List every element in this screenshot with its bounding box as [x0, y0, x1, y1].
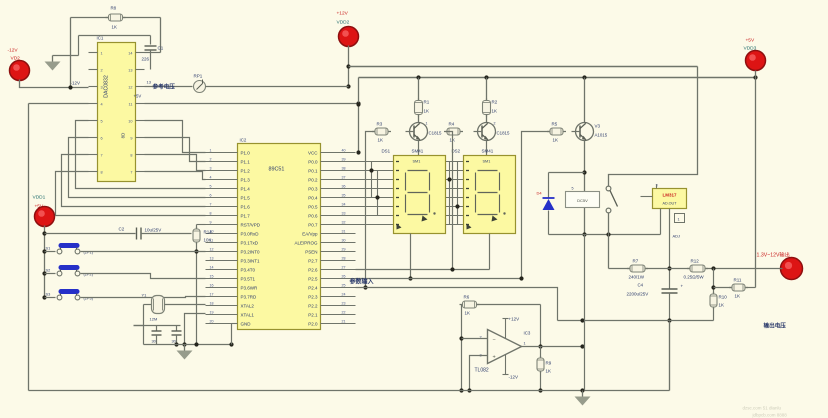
svg-text:P0.4: P0.4 [308, 195, 318, 200]
wire bus DAC right pins to MCU P1.0-P1.3 [145, 121, 206, 180]
wire bus between DS1 and DS2 [446, 162, 464, 225]
op-amp -12V supply pin [503, 355, 519, 380]
wire VDD2 down to rails [346, 46, 350, 89]
svg-text:10K: 10K [204, 238, 212, 243]
svg-text:9: 9 [130, 137, 132, 141]
wire S2 to MCU P3.5 [81, 274, 206, 279]
svg-text:17: 17 [210, 293, 214, 297]
svg-text:1K: 1K [735, 294, 741, 299]
svg-text:P0.2: P0.2 [308, 177, 318, 182]
svg-text:89C51: 89C51 [269, 167, 285, 173]
svg-text:16: 16 [210, 284, 214, 288]
MCU pin labels [241, 150, 319, 326]
svg-text:GND: GND [241, 321, 252, 326]
svg-text:P2.2: P2.2 [308, 303, 318, 308]
svg-text:C2: C2 [119, 227, 125, 232]
svg-text:1K: 1K [553, 138, 559, 143]
svg-text:S3: S3 [46, 292, 51, 297]
svg-text:+12V: +12V [509, 317, 520, 322]
wire XTAL1 leg [182, 314, 205, 347]
relay contact switch [606, 67, 697, 213]
svg-text:P0.6: P0.6 [308, 213, 318, 218]
wire +5V row from left border to DAC pin4 [29, 103, 89, 105]
svg-text:5: 5 [572, 187, 574, 191]
svg-text:19: 19 [210, 311, 214, 315]
svg-text:IC3: IC3 [524, 331, 531, 336]
svg-text:C1815: C1815 [429, 131, 442, 136]
resistor R1 1K [415, 78, 430, 123]
svg-text:11: 11 [129, 103, 133, 107]
svg-text:2: 2 [210, 158, 212, 162]
svg-text:XTAL2: XTAL2 [241, 303, 255, 308]
svg-text:S2: S2 [46, 268, 51, 273]
svg-text:1: 1 [210, 149, 212, 153]
svg-text:12M: 12M [150, 317, 158, 322]
wire R4 feed vertical through display gap [447, 132, 455, 272]
svg-text:C1: C1 [158, 46, 164, 51]
wire sense rail y320 [558, 318, 714, 322]
svg-text:DC5V: DC5V [577, 198, 588, 203]
wire adj rail to bottom [669, 322, 671, 391]
wire VDD1 vertical rail [42, 226, 46, 300]
op-amp +12V supply pin [503, 317, 520, 339]
svg-text:6: 6 [101, 137, 103, 141]
wire LM317 adj leg [667, 209, 680, 289]
svg-text:SM1: SM1 [483, 160, 491, 164]
display DS1 (7-segment) [382, 149, 446, 234]
MCU pin stubs left with numbers [206, 149, 238, 324]
svg-text:20: 20 [210, 320, 214, 324]
svg-text:1: 1 [678, 218, 680, 222]
svg-text:VDD2: VDD2 [337, 20, 350, 26]
svg-text:8D: 8D [121, 133, 126, 139]
svg-text:VDD1: VDD1 [33, 195, 46, 201]
wire bus DAC left pins to MCU P1.4-P1.7 [56, 121, 206, 216]
svg-text:VCC: VCC [308, 150, 318, 155]
svg-text:13: 13 [210, 257, 214, 261]
svg-text:40: 40 [342, 149, 346, 153]
svg-text:dzsc.com 51 dianlu: dzsc.com 51 dianlu [743, 406, 782, 411]
svg-text:jdbpcb.com 8888: jdbpcb.com 8888 [752, 413, 788, 418]
wire V3 collector to rail2 [584, 78, 586, 123]
svg-text:+5V: +5V [746, 38, 755, 44]
op-amp IC3 TL082 [475, 330, 531, 374]
resistor R5 1K (V3 base) [547, 122, 566, 143]
potentiometer RP1 [194, 74, 206, 93]
svg-text:P3.7RD: P3.7RD [241, 294, 258, 299]
wire contact bottom to output row [608, 213, 610, 269]
svg-text:1: 1 [101, 52, 103, 56]
resistor R12 0.25R/5W [684, 259, 709, 280]
svg-text:ALE/PROG: ALE/PROG [294, 240, 318, 245]
svg-text:33: 33 [342, 212, 346, 216]
svg-text:27: 27 [342, 266, 346, 270]
capacitor C1 226 [142, 36, 164, 70]
wire Q1 emitter to DS1 [418, 141, 420, 156]
svg-text:P0.1: P0.1 [308, 168, 318, 173]
svg-text:参数输入: 参数输入 [349, 278, 374, 286]
svg-text:+: + [493, 355, 496, 361]
svg-text:IC2: IC2 [240, 138, 247, 143]
svg-text:1K: 1K [492, 109, 498, 114]
svg-text:37: 37 [342, 176, 346, 180]
wire crystal left leg down [134, 305, 181, 345]
svg-text:P1.4: P1.4 [241, 186, 251, 191]
svg-text:-12V: -12V [71, 81, 81, 86]
svg-text:1: 1 [426, 122, 428, 126]
svg-text:P2.3: P2.3 [308, 294, 318, 299]
svg-text:P1.7: P1.7 [241, 213, 251, 218]
wire ground rail under crystal [144, 342, 234, 346]
svg-text:R2: R2 [492, 100, 498, 105]
svg-text:2200u/25V: 2200u/25V [627, 292, 649, 297]
wire LM317 out pin down [660, 209, 662, 235]
svg-text:21: 21 [342, 320, 346, 324]
svg-text:AD.OUT: AD.OUT [663, 202, 678, 206]
svg-text:38: 38 [342, 167, 346, 171]
svg-text:2: 2 [101, 69, 103, 73]
svg-text:1K: 1K [112, 25, 117, 30]
svg-text:8: 8 [130, 154, 132, 158]
wire -12V rail to DAC pin3 [20, 80, 89, 88]
svg-text:DS1: DS1 [382, 149, 391, 154]
svg-text:29: 29 [342, 248, 346, 252]
svg-text:P1.3: P1.3 [241, 177, 251, 182]
MCU pin stubs right with numbers [321, 149, 356, 324]
wire R3 feed from P2.4 row [363, 132, 374, 290]
wire inverting input node [459, 305, 487, 393]
wire S3 to MCU P3.7 [81, 297, 206, 298]
power terminal 1.3V~12V output (red) [757, 251, 803, 280]
svg-text:输出电压: 输出电压 [764, 322, 787, 330]
svg-text:14: 14 [210, 266, 214, 270]
svg-text:15: 15 [210, 275, 214, 279]
svg-text:P2.0: P2.0 [308, 321, 318, 326]
svg-text:226: 226 [142, 57, 150, 62]
svg-text:DAC0832: DAC0832 [104, 75, 110, 98]
diode D4 (blue) [537, 173, 585, 235]
wire DAC pin14 row [145, 52, 161, 54]
DAC pin stubs and numbers [89, 52, 145, 175]
switch S1 (push button) [45, 243, 94, 255]
svg-text:SM1: SM1 [413, 160, 421, 164]
wire loop with R8 over DAC [68, 18, 160, 90]
svg-text:SM41: SM41 [412, 149, 424, 154]
wire DS2 bottom pin to P2.6 row [489, 234, 491, 270]
svg-text:35: 35 [342, 194, 346, 198]
crystal Y1 12M [142, 293, 165, 322]
wire P2.5 row (digit select) [356, 278, 522, 280]
svg-text:R8: R8 [111, 6, 117, 11]
resistor R2 1K [483, 78, 498, 123]
svg-text:V3: V3 [595, 124, 601, 129]
svg-text:7: 7 [210, 203, 212, 207]
svg-text:R9: R9 [546, 361, 552, 366]
svg-text:240/1W: 240/1W [629, 275, 645, 280]
wire RP1 to VDD2 node [206, 86, 349, 88]
svg-text:32: 32 [342, 221, 346, 225]
svg-text:28: 28 [342, 257, 346, 261]
wire VDD3 vertical down to R11 [755, 71, 757, 288]
svg-text:1K: 1K [719, 303, 725, 308]
svg-text:P1.0: P1.0 [241, 150, 251, 155]
svg-text:12: 12 [210, 248, 214, 252]
svg-text:P1.2: P1.2 [241, 168, 251, 173]
svg-text:1.3V~12V输出: 1.3V~12V输出 [757, 251, 790, 259]
svg-text:4: 4 [210, 176, 212, 180]
wire bottom ground rail [29, 388, 670, 392]
svg-text:R12: R12 [691, 259, 700, 264]
svg-text:P0.5: P0.5 [308, 204, 318, 209]
wire V3 emitter chain to ground rail [584, 235, 586, 391]
svg-text:P2.6: P2.6 [308, 267, 318, 272]
svg-text:+: + [681, 284, 684, 289]
svg-text:31: 31 [342, 230, 346, 234]
svg-text:P3.3INT1: P3.3INT1 [241, 258, 261, 263]
svg-text:R11: R11 [734, 278, 742, 283]
svg-text:R3: R3 [377, 122, 383, 127]
svg-text:P1.5: P1.5 [241, 195, 251, 200]
svg-text:2: 2 [494, 122, 496, 126]
ground (bottom) [575, 391, 591, 406]
wire +12V rail1 [349, 66, 698, 68]
resistor R7 240/1W [627, 259, 648, 280]
svg-text:3: 3 [210, 167, 212, 171]
svg-text:C1815: C1815 [497, 131, 510, 136]
svg-text:13: 13 [147, 80, 152, 85]
svg-text:1K: 1K [465, 311, 471, 316]
switch S2 (push button) [45, 265, 94, 277]
svg-text:Y1: Y1 [142, 293, 148, 298]
svg-text:P0.7: P0.7 [308, 222, 318, 227]
svg-text:6: 6 [210, 194, 212, 198]
svg-text:10: 10 [128, 120, 132, 124]
svg-text:5: 5 [101, 120, 103, 124]
svg-text:22: 22 [342, 311, 346, 315]
resistor R11 1K from VDD3 [714, 278, 756, 299]
DAC IC1 DAC0832 body [98, 43, 136, 182]
svg-text:34: 34 [342, 203, 346, 207]
svg-text:1K: 1K [378, 138, 384, 143]
svg-text:39: 39 [342, 158, 346, 162]
resistor R6 1K (feedback) [460, 295, 480, 316]
svg-text:ADJ: ADJ [673, 234, 681, 239]
wire DAC pin4 row right with +5V label [134, 94, 361, 106]
svg-text:23: 23 [342, 302, 346, 306]
power terminal +12V VDD2 (red) [337, 11, 359, 47]
svg-text:4: 4 [101, 103, 103, 107]
svg-text:25: 25 [342, 284, 346, 288]
svg-text:R7: R7 [633, 259, 639, 264]
MCU U1 89C51 body [238, 144, 321, 330]
wire MCU GND leg [232, 324, 238, 345]
svg-text:R1: R1 [424, 100, 430, 105]
svg-text:C4: C4 [638, 283, 644, 288]
svg-text:-12V: -12V [509, 375, 519, 380]
transistor Q1 C1815 [406, 122, 442, 141]
svg-text:1K: 1K [424, 109, 430, 114]
svg-text:7: 7 [101, 154, 103, 158]
svg-text:XTAL1: XTAL1 [241, 312, 255, 317]
ground (crystal area) [177, 345, 193, 360]
wire feedback loop [477, 305, 543, 349]
power terminal VDD1 +5V (red, left) [33, 195, 55, 227]
svg-text:9: 9 [210, 221, 212, 225]
svg-text:R4: R4 [449, 122, 455, 127]
capacitor C5 30pF [152, 326, 162, 345]
svg-text:P0.3: P0.3 [308, 186, 318, 191]
transistor V3 A1015 [572, 123, 608, 141]
svg-text:8: 8 [210, 212, 212, 216]
resistor R3 1K (Q1 base) [372, 122, 391, 143]
svg-text:12: 12 [128, 86, 132, 90]
wire output row [609, 266, 783, 270]
svg-text:P2.5: P2.5 [308, 276, 318, 281]
svg-text:参考电压: 参考电压 [152, 83, 176, 91]
svg-text:R14: R14 [204, 230, 213, 235]
svg-text:30: 30 [342, 239, 346, 243]
svg-text:P1.6: P1.6 [241, 204, 251, 209]
wire S1 to MCU P3.2 [81, 251, 206, 253]
wire DS1 bottom pin to P2.5 row [408, 234, 412, 281]
capacitor C4 2200u/25V [627, 283, 684, 391]
power terminal +5V VDD3 (red, top right) [744, 38, 766, 71]
svg-text:P0.0: P0.0 [308, 159, 318, 164]
capacitor C2 10u/25V on reset row [45, 227, 192, 240]
svg-text:A1015: A1015 [595, 133, 608, 138]
svg-text:EA/Vpp: EA/Vpp [302, 231, 318, 236]
svg-text:36: 36 [342, 185, 346, 189]
relay K1 DC5V [566, 187, 600, 208]
wire reference voltage row with label [145, 80, 193, 91]
wire bus MCU P0 to DS1 pins [356, 162, 394, 225]
svg-text:RST/VPD: RST/VPD [241, 222, 261, 227]
resistor R14 10K (reset pulldown) [193, 225, 212, 345]
svg-text:0.25Ω/5W: 0.25Ω/5W [684, 275, 705, 280]
svg-text:R10: R10 [719, 295, 728, 300]
transistor Q2 C1815 [474, 122, 510, 141]
svg-text:1: 1 [524, 342, 526, 346]
inner wire loop DAC pin1 [53, 36, 151, 56]
svg-text:P3.0RxD: P3.0RxD [241, 231, 260, 236]
svg-text:IC1: IC1 [97, 36, 104, 41]
capacitor C6 30pF [172, 326, 182, 347]
svg-text:18: 18 [210, 302, 214, 306]
power terminal -12V VD2 (red) [8, 48, 30, 81]
wire diode bottom row [549, 232, 661, 236]
svg-text:P2.7: P2.7 [308, 258, 318, 263]
wire rail2 +5V distribution [356, 75, 757, 154]
svg-text:P3.1TxD: P3.1TxD [241, 240, 259, 245]
resistor R9 1K to ground rail [537, 347, 552, 393]
svg-text:13: 13 [128, 69, 132, 73]
svg-text:SM41: SM41 [482, 149, 494, 154]
regulator IC4 LM317 [641, 184, 687, 223]
wire Q2 emitter to DS2 [486, 141, 488, 156]
svg-text:24: 24 [342, 293, 346, 297]
svg-text:R6: R6 [464, 295, 470, 300]
wire crystal to XTAL2 [165, 304, 206, 306]
svg-text:RP1: RP1 [194, 74, 203, 79]
svg-text:8: 8 [101, 171, 103, 175]
faint watermark text (bottom right) [743, 406, 788, 418]
resistor R4 1K (Q2 base) [444, 122, 463, 143]
svg-text:P3.2INT0: P3.2INT0 [241, 249, 261, 254]
resistor R10 1K with leg [710, 269, 727, 321]
svg-text:26: 26 [342, 275, 346, 279]
switch S3 (push button) [45, 289, 94, 301]
svg-text:S1: S1 [46, 246, 51, 251]
svg-text:P3.6WR: P3.6WR [241, 285, 259, 290]
svg-text:3: 3 [101, 86, 103, 90]
wire P2.6 row (digit select) [356, 269, 490, 271]
svg-text:+5V: +5V [134, 94, 142, 99]
svg-text:PSEN: PSEN [305, 249, 317, 254]
svg-text:P3.4T0: P3.4T0 [241, 267, 256, 272]
wire bus verticals left of DS1 [369, 162, 379, 216]
svg-text:P2.1: P2.1 [308, 312, 318, 317]
svg-text:R5: R5 [552, 122, 558, 127]
svg-text:D4: D4 [537, 191, 543, 196]
svg-text:P1.1: P1.1 [241, 159, 251, 164]
svg-text:1K: 1K [546, 369, 552, 374]
svg-text:10u/25V: 10u/25V [145, 228, 162, 233]
resistor R8 [106, 6, 126, 30]
wire non-inverting input to ground rail [467, 356, 487, 393]
svg-text:-12V: -12V [8, 48, 19, 54]
svg-text:P3.5T1: P3.5T1 [241, 276, 256, 281]
svg-text:5: 5 [210, 185, 212, 189]
svg-text:TL082: TL082 [475, 368, 489, 374]
svg-text:LM317: LM317 [662, 193, 677, 198]
display DS2 (7-segment) [452, 149, 516, 234]
svg-text:+12V: +12V [337, 11, 349, 17]
wire left border rail [28, 104, 30, 391]
ground (top-left) [45, 56, 61, 71]
wire P2.4 row to output sense [356, 288, 558, 321]
svg-text:7: 7 [130, 171, 132, 175]
wire R5 feed from P2.5 row [519, 132, 549, 281]
svg-text:14: 14 [128, 52, 132, 56]
wire V3 emitter down [582, 141, 586, 237]
svg-text:−: − [493, 338, 496, 344]
svg-text:P2.4: P2.4 [308, 285, 318, 290]
wire R4 feed from P2.6 row [446, 131, 447, 133]
wire op-amp output to V3 emitter rail [522, 344, 585, 348]
